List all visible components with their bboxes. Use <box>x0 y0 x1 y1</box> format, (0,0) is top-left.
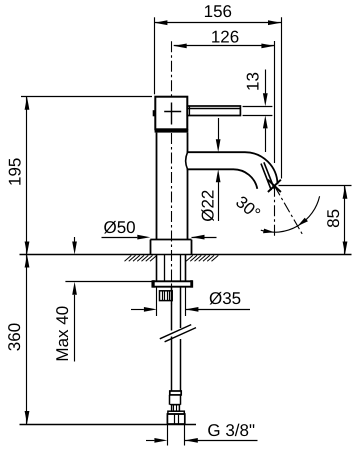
svg-text:Max 40: Max 40 <box>53 306 72 362</box>
svg-text:85: 85 <box>324 209 343 228</box>
svg-text:G 3/8": G 3/8" <box>207 421 255 440</box>
svg-text:Ø35: Ø35 <box>209 289 241 308</box>
svg-text:156: 156 <box>204 2 232 21</box>
svg-text:195: 195 <box>6 158 25 186</box>
svg-text:126: 126 <box>211 28 239 47</box>
svg-text:13: 13 <box>244 72 263 91</box>
svg-text:Ø50: Ø50 <box>104 218 136 237</box>
svg-text:Ø22: Ø22 <box>199 190 218 222</box>
svg-text:360: 360 <box>5 323 24 351</box>
